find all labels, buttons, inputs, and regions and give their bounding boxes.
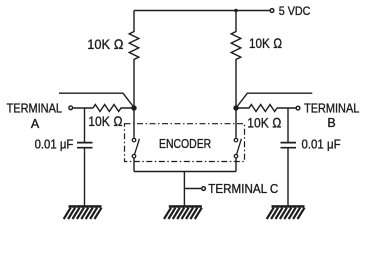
ground G3 center tap <box>164 205 202 219</box>
ground G1 under C1 <box>64 205 102 219</box>
switch S2 contact top circle <box>234 138 238 142</box>
node TERMINAL A circle <box>69 106 73 110</box>
switch S1 wire from junction A <box>133 108 135 138</box>
svg-text:A: A <box>31 117 40 131</box>
node junction B dot <box>233 105 238 110</box>
node TERMINAL B circle <box>296 106 300 110</box>
svg-text:TERMINAL: TERMINAL <box>304 101 359 115</box>
wire bypass right <box>236 93 312 108</box>
svg-text:10K Ω: 10K Ω <box>88 113 123 129</box>
switch S1 contact top circle <box>132 138 136 142</box>
node TERMINAL C circle <box>202 187 206 191</box>
svg-text:0.01 μF: 0.01 μF <box>35 137 74 151</box>
switch S2 wire from junction B <box>235 108 237 138</box>
wire center tap to ground <box>183 172 185 206</box>
svg-text:10K Ω: 10K Ω <box>249 35 282 51</box>
wire terminal A to resistor <box>73 107 93 109</box>
switch S2 lever <box>237 139 242 154</box>
wire resistor to terminal B <box>277 107 296 109</box>
resistor R2 10K right pull-up <box>231 11 241 109</box>
svg-text:10K Ω: 10K Ω <box>247 115 281 131</box>
wire to terminal C <box>184 188 201 190</box>
capacitor C1 plates <box>77 143 93 148</box>
svg-text:TERMINAL C: TERMINAL C <box>208 182 278 196</box>
switch S2 contact bottom circle <box>234 154 238 158</box>
switch S1 wire to rail <box>133 158 135 171</box>
wire bottom rail <box>134 171 236 173</box>
svg-text:TERMINAL: TERMINAL <box>7 101 62 115</box>
wire top supply rail <box>134 10 270 12</box>
capacitor C2 plates <box>281 143 297 148</box>
node top junction dot <box>234 9 238 13</box>
capacitor C1 lead bottom <box>84 149 86 206</box>
svg-text:ENCODER: ENCODER <box>159 137 211 151</box>
svg-text:0.01 μF: 0.01 μF <box>302 137 341 151</box>
ground G2 under C2 <box>267 205 305 219</box>
capacitor C1 0.01uF lead top <box>84 108 86 142</box>
svg-text:B: B <box>327 116 335 130</box>
resistor R4 10K terminal B series <box>236 105 277 112</box>
switch S1 lever <box>135 139 140 154</box>
switch S2 wire to rail <box>235 158 237 171</box>
node 5 VDC terminal circle <box>270 9 274 13</box>
svg-text:10K Ω: 10K Ω <box>87 36 123 52</box>
capacitor C2 0.01uF lead top <box>287 108 289 142</box>
wire bypass left <box>59 93 134 107</box>
resistor R3 10K terminal A series <box>93 105 134 112</box>
node junction A dot <box>131 105 136 110</box>
svg-text:5 VDC: 5 VDC <box>279 4 311 18</box>
capacitor C2 lead bottom <box>287 149 289 206</box>
encoder box dash-dot outline <box>125 124 245 162</box>
resistor R1 10K left pull-up <box>129 11 139 109</box>
switch S1 contact bottom circle <box>132 154 136 158</box>
